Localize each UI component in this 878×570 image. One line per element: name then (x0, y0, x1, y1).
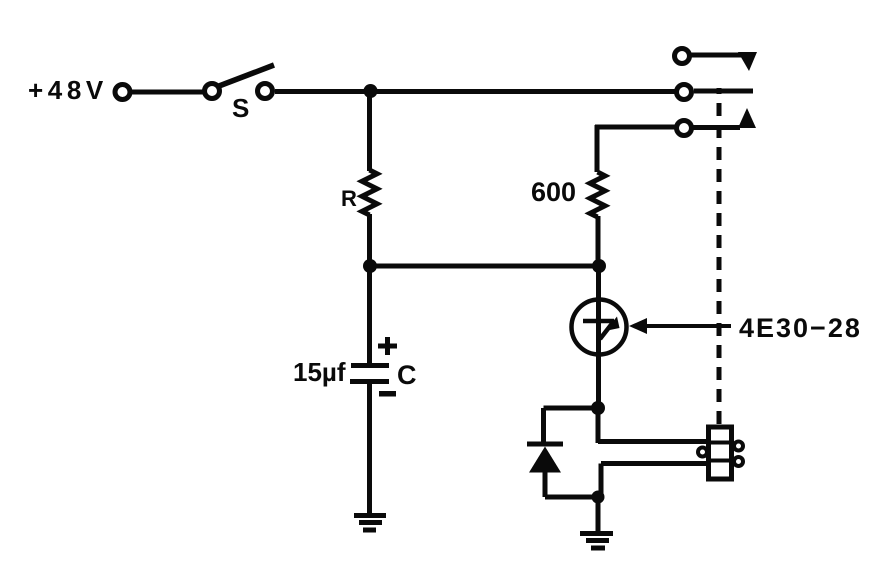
wire from +48V terminal to switch (132, 90, 203, 95)
wire diode to junction B (545, 495, 598, 500)
svg-text:4E30−28: 4E30−28 (739, 313, 862, 343)
wire right of top terminal (691, 53, 746, 58)
node junction A (tube / diode / coil) (591, 401, 605, 415)
relay coil loop lower right (734, 457, 743, 466)
ballast tube 4E30-28 body (572, 300, 627, 355)
terminal middle right (677, 85, 692, 100)
ground right (580, 534, 613, 549)
wire resistor R to junction (367, 214, 372, 266)
node junction right (600 / tube) (592, 259, 606, 273)
plus sign of capacitor (378, 337, 397, 355)
switch S blade (219, 65, 274, 86)
wire bus to resistor R (367, 92, 372, 171)
diode cathode bar (527, 442, 563, 447)
wire from 600 riser to lower terminal (595, 125, 675, 130)
leader line from label (645, 324, 731, 328)
node junction top (bus / R branch) (364, 84, 378, 98)
wire 600 resistor to junction (596, 216, 601, 266)
wire coil top feed (598, 439, 710, 444)
svg-text:+48V: +48V (28, 75, 108, 105)
ballast tube filament symbol (583, 317, 620, 340)
wire cross connection R-600 (370, 264, 599, 269)
capacitor C bottom plate (350, 379, 389, 384)
ground left (354, 516, 386, 531)
mechanical linkage dashed line (717, 88, 722, 424)
relay coil turn lower (706, 459, 734, 463)
contact arrow up (lower throw) (738, 108, 756, 128)
wire right of lower terminal (693, 125, 740, 130)
wire junction to capacitor (367, 266, 372, 364)
switch S throw terminal (258, 84, 273, 99)
terminal top right (675, 49, 690, 64)
terminal +48V (115, 85, 130, 100)
resistor 600 (590, 172, 605, 217)
svg-text:15µf: 15µf (293, 357, 346, 387)
contact arrow down (upper throw) (738, 52, 757, 71)
svg-text:S: S (232, 93, 249, 123)
svg-text:C: C (397, 360, 417, 390)
wire coil return down to junction B (599, 464, 604, 497)
resistor R (362, 170, 377, 215)
svg-text:R: R (341, 186, 357, 211)
wire riser to 600 resistor (595, 125, 600, 172)
relay coil turn upper (706, 441, 734, 445)
wire right of middle terminal (694, 89, 753, 94)
terminal lower right (677, 121, 692, 136)
svg-text:600: 600 (531, 177, 576, 207)
diode anode triangle (529, 447, 561, 473)
wire junction B to ground (596, 497, 601, 533)
wire down to diode cathode (541, 408, 546, 443)
wire main bus (275, 89, 675, 94)
wire capacitor to ground (367, 382, 372, 515)
node junction B (diode / coil / ground) (592, 491, 605, 504)
relay coil body (709, 427, 732, 479)
wire diode anode down (543, 472, 548, 497)
node junction left (R / C) (363, 259, 377, 273)
minus sign of capacitor (379, 391, 396, 397)
wire junction A to diode top (544, 406, 599, 411)
wire coil bottom return (601, 461, 708, 466)
relay coil loop left (698, 448, 707, 457)
relay coil loop upper right (734, 442, 743, 451)
wire junction to tube (596, 266, 601, 408)
switch S pole terminal (205, 84, 220, 99)
leader arrowhead to tube (629, 318, 647, 334)
wire junction A down to coil feed (596, 408, 601, 443)
capacitor C top plate (351, 363, 389, 368)
